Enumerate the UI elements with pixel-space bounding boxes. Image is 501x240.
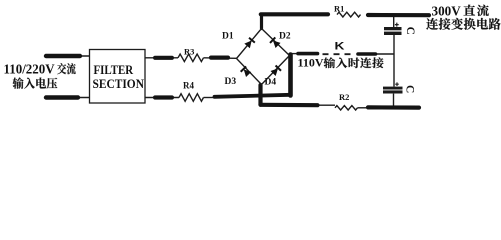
svg-text:R2: R2	[339, 92, 349, 102]
svg-text:FILTER: FILTER	[94, 62, 134, 77]
svg-text:R4: R4	[183, 81, 194, 91]
svg-text:C: C	[404, 85, 416, 93]
svg-text:K: K	[335, 40, 345, 52]
svg-text:R3: R3	[184, 47, 194, 57]
svg-text:SECTION: SECTION	[93, 76, 145, 91]
svg-text:R1: R1	[334, 4, 344, 14]
svg-text:C: C	[404, 27, 416, 35]
svg-text:110V: 110V	[298, 56, 324, 70]
svg-text:110/220V: 110/220V	[4, 61, 56, 76]
svg-text:300V: 300V	[432, 3, 461, 18]
svg-text:D1: D1	[222, 32, 234, 42]
svg-text:D3: D3	[225, 77, 237, 87]
svg-text:D2: D2	[279, 32, 291, 42]
svg-text:D4: D4	[265, 78, 277, 88]
